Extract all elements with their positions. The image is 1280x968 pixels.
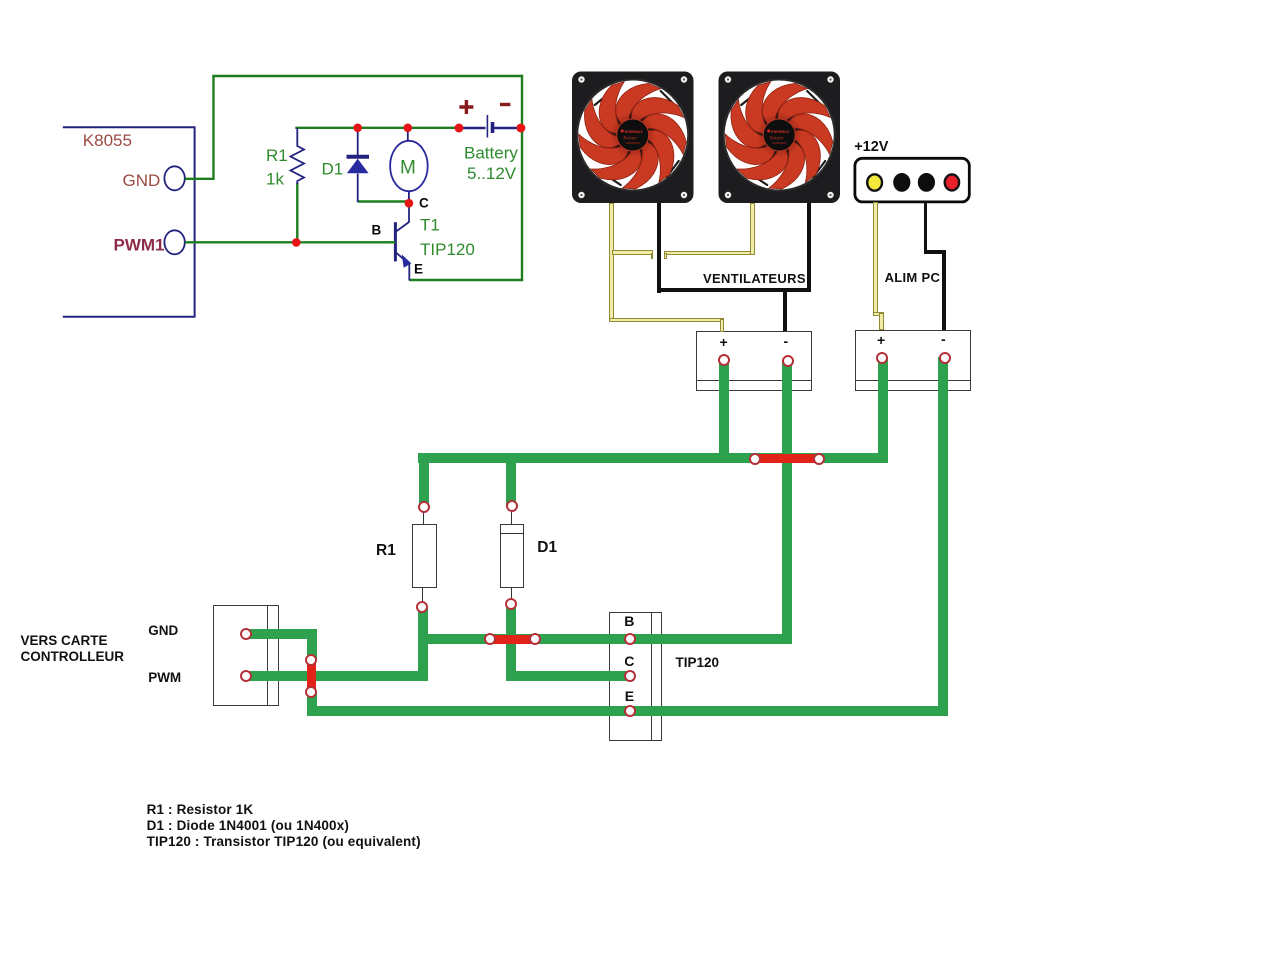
wire GND stub	[185, 178, 214, 180]
svg-text:M: M	[400, 158, 416, 179]
svg-text:1k: 1k	[266, 170, 284, 189]
label ALIM PC	[885, 270, 941, 285]
ALIM terminal block	[855, 330, 971, 391]
fan 1	[571, 72, 694, 204]
jumper red bus over fans-	[755, 454, 819, 463]
fan1 yellow wire down	[609, 203, 614, 322]
port GND jumper top	[305, 654, 317, 666]
wire D1 top drop	[506, 453, 516, 506]
label GND	[148, 623, 178, 638]
label PWM	[148, 670, 181, 685]
svg-text:5..12V: 5..12V	[467, 164, 517, 183]
jumper red base row over D1	[490, 635, 535, 644]
fan1 yellow stub right	[612, 250, 653, 255]
fan1 yellow drop to block	[720, 319, 725, 332]
resistor R1 body	[412, 524, 437, 588]
TIP120 inner line	[651, 612, 652, 741]
port B	[624, 633, 636, 645]
fan1 yellow stub end tick	[651, 253, 654, 259]
svg-text:PWM1: PWM1	[114, 235, 165, 254]
label fans +	[720, 334, 728, 350]
label TIP120	[676, 655, 720, 670]
molex pin black 1	[894, 174, 909, 190]
fans block inner line	[696, 380, 812, 381]
svg-text:B: B	[372, 223, 382, 238]
svg-text:TIP120: TIP120	[420, 240, 475, 259]
svg-text:GND: GND	[123, 171, 161, 190]
wire R1 lower lead	[296, 183, 298, 243]
port R1 top	[418, 501, 430, 513]
wire GND row	[246, 629, 317, 639]
label C	[624, 653, 634, 669]
fan 2	[718, 72, 841, 204]
svg-text:T1: T1	[420, 216, 440, 235]
wire ALIM+ drop	[878, 357, 888, 463]
schematic labels	[83, 131, 519, 277]
junction dots	[353, 124, 362, 133]
wire plus rail	[295, 127, 459, 129]
transistor T1	[394, 222, 397, 261]
TIP120 box	[609, 612, 663, 741]
label D1	[537, 539, 557, 557]
fans black drop to block	[783, 290, 788, 331]
molex pin red	[945, 174, 959, 190]
wire PWM row	[246, 671, 428, 681]
port fans +	[718, 354, 730, 366]
molex black drop to block	[942, 250, 946, 330]
wire right drop	[521, 75, 523, 280]
wire base row	[418, 634, 793, 644]
GND terminal circle	[164, 166, 184, 190]
wire ALIM- drop	[938, 357, 948, 715]
fans black bus horizontal	[657, 288, 811, 292]
motor M	[390, 141, 428, 191]
label R1	[376, 542, 396, 560]
svg-text:K8055: K8055	[83, 131, 132, 150]
controller terminal block	[213, 605, 279, 707]
fan2 black wire down	[807, 203, 812, 292]
svg-text:C: C	[419, 196, 429, 211]
wire GND drop lower	[307, 692, 317, 715]
fan2 yellow end tick	[664, 253, 667, 259]
label +12V	[854, 139, 888, 155]
port bus jumper right	[813, 453, 825, 465]
resistor R1 zigzag	[291, 128, 305, 184]
wire top rail	[212, 75, 522, 77]
port E	[624, 705, 636, 717]
wire bottom to emitter	[409, 279, 523, 281]
wire D1 to collector node	[358, 200, 409, 202]
molex yellow jog	[873, 312, 884, 317]
label VENTILATEURS	[703, 271, 806, 286]
molex pin black 2	[919, 174, 934, 190]
fans	[565, 65, 850, 210]
port GND jumper bottom	[305, 686, 317, 698]
label VERS CARTE CONTROLLEUR	[21, 633, 125, 666]
molex yellow drop to block	[879, 313, 884, 330]
emitter arrow	[403, 256, 411, 267]
fan2 yellow segment	[664, 251, 755, 256]
D1 cathode band	[500, 533, 524, 534]
fan1 black wire down	[657, 203, 662, 293]
fans terminal block	[696, 331, 812, 391]
D1 bottom lead	[511, 588, 512, 600]
port C	[624, 670, 636, 682]
diode D1	[357, 128, 359, 155]
svg-text:D1: D1	[322, 160, 344, 179]
wire R1 top drop	[419, 453, 429, 507]
wire emitter row	[307, 706, 949, 716]
wire GND riser	[212, 76, 214, 180]
wire fans- drop	[782, 361, 792, 644]
port PWM	[240, 670, 252, 682]
port GND	[240, 628, 252, 640]
battery symbol	[459, 127, 486, 129]
label fans -	[784, 333, 789, 349]
molex pin yellow	[867, 174, 882, 190]
molex black wire down	[924, 202, 928, 254]
svg-text:E: E	[414, 262, 423, 277]
wire +12V bus horizontal	[418, 453, 888, 463]
jumper red GND over PWM	[307, 660, 316, 692]
label B	[624, 613, 634, 629]
port D1 top	[506, 500, 518, 512]
port fans -	[782, 355, 794, 367]
molex connector	[850, 154, 976, 206]
port ALIM -	[939, 352, 951, 364]
molex yellow wire down	[873, 202, 878, 316]
port ALIM +	[876, 352, 888, 364]
label E	[625, 688, 634, 704]
port R1 bottom	[416, 601, 428, 613]
wire R1 bottom vertical	[418, 607, 428, 681]
battery plus sign	[459, 100, 473, 114]
R1 bottom lead	[422, 588, 423, 603]
wire fans+ drop	[719, 360, 729, 463]
svg-text:Battery: Battery	[464, 144, 518, 163]
port D1 bottom	[505, 598, 517, 610]
molex black jog	[924, 250, 946, 254]
D1 top lead	[511, 511, 512, 525]
legend text	[147, 802, 421, 850]
schematic top-left	[40, 60, 560, 340]
wire PWM1 to base	[185, 241, 384, 243]
wire GND drop upper	[307, 629, 317, 660]
R1 top lead	[423, 512, 424, 525]
diode D1 body	[500, 524, 524, 588]
wire collector row	[506, 671, 634, 681]
port bus jumper left	[749, 453, 761, 465]
label ALIM +	[877, 332, 885, 348]
K8055 box	[63, 127, 195, 317]
fan2 yellow wire down	[750, 203, 755, 255]
port base jumper left	[484, 633, 496, 645]
wire D1 bottom drop	[506, 604, 516, 681]
port base jumper right	[529, 633, 541, 645]
svg-text:R1: R1	[266, 146, 288, 165]
controller block inner line	[267, 605, 268, 707]
label ALIM -	[941, 331, 946, 347]
PWM1 terminal circle	[164, 230, 184, 254]
fan1 yellow horizontal run	[609, 318, 724, 323]
battery minus sign	[500, 103, 510, 106]
ALIM block inner line	[855, 380, 971, 381]
